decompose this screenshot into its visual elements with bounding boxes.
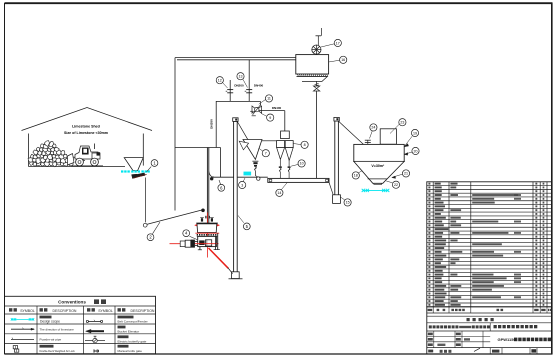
svg-text:7: 7 [265, 151, 267, 155]
title block frame [427, 307, 552, 354]
legend text manual knife gate [118, 345, 143, 353]
label 7 [259, 148, 270, 157]
legend column headers [9, 308, 155, 313]
svg-text:DN350: DN350 [209, 119, 213, 129]
label 10 [291, 160, 305, 167]
svg-text:SYMBOL: SYMBOL [98, 309, 113, 313]
vibrating feeder under hopper 1 [132, 173, 147, 179]
recirculation pipe DN350 [175, 101, 221, 177]
header pipe to butterfly valve [216, 100, 260, 102]
svg-text:23: 23 [400, 120, 404, 124]
bag filter 16 body [296, 55, 329, 82]
cyclone inlet box [281, 131, 290, 139]
svg-text:DN400: DN400 [272, 106, 282, 110]
cyclone pair 8 [262, 141, 293, 161]
svg-text:Double-Deck Weighted Air Lock: Double-Deck Weighted Air Lock [40, 350, 76, 353]
drop pipe from tank to screw conveyor [315, 83, 319, 178]
svg-text:DN400: DN400 [254, 84, 264, 88]
label 21 [392, 170, 410, 179]
svg-text:10: 10 [300, 162, 304, 166]
label 4 [183, 230, 197, 240]
label 1 [147, 160, 158, 172]
svg-text:Design scope: Design scope [40, 320, 60, 324]
mill 4 [170, 213, 220, 258]
svg-text:11: 11 [267, 97, 271, 101]
legend symbol manual knife gate [94, 349, 98, 352]
svg-text:Size of Limestone <30mm: Size of Limestone <30mm [64, 131, 108, 135]
label 17 [321, 39, 341, 47]
silo bag filter 23 [380, 129, 396, 144]
chute elevator15 to silo [339, 121, 364, 144]
label 5 [238, 216, 250, 230]
belt conveyor 2 [143, 209, 205, 228]
label 11 [259, 95, 273, 104]
parts header row [427, 307, 552, 313]
svg-text:Belt Conveyor/Feeder: Belt Conveyor/Feeder [118, 320, 148, 324]
mill discharge chute (red) [209, 248, 233, 274]
svg-text:Bucket Elevator: Bucket Elevator [118, 329, 140, 333]
legend text design scope [40, 316, 61, 324]
air duct horizontal [175, 58, 296, 60]
legend text butterfly gate [118, 335, 147, 343]
drawing title [498, 337, 552, 342]
parts list table [427, 182, 552, 307]
equipment material list title [427, 316, 552, 323]
label 8 [293, 141, 308, 148]
label 20 [404, 147, 419, 155]
separator discharge airlock [252, 161, 260, 180]
svg-text:19: 19 [413, 131, 417, 135]
screw feeder text (cyan) [244, 172, 252, 176]
label 16 [329, 56, 347, 63]
svg-text:20: 20 [414, 149, 418, 153]
label 2 [147, 222, 160, 241]
svg-text:The direction of limestone: The direction of limestone [40, 328, 75, 332]
label 13 [237, 73, 248, 88]
cyclone flap valves 10 [279, 160, 291, 179]
label 19 [404, 129, 418, 146]
label 14 [276, 183, 287, 197]
air duct downcomer [174, 58, 176, 211]
svg-text:12: 12 [218, 78, 222, 82]
branch pipe with valve 13 DN400 [245, 60, 253, 101]
mill motor [180, 240, 198, 248]
svg-text:Manual knife gate: Manual knife gate [118, 349, 143, 353]
svg-text:17: 17 [336, 41, 340, 45]
svg-text:9: 9 [269, 116, 271, 120]
feeder model text (cyan) [121, 170, 150, 172]
label 9 [261, 113, 274, 121]
legend symbol butterfly gate [85, 336, 105, 343]
svg-text:DESCRIPTION: DESCRIPTION [53, 309, 77, 313]
legend symbol belt conveyor [86, 320, 102, 323]
label 12 [216, 77, 227, 88]
bucket elevator 5 [229, 118, 243, 279]
mill feed pipe [207, 148, 208, 223]
wheel loader [68, 144, 104, 166]
label 24 [370, 124, 378, 139]
legend text belt conveyor [118, 316, 148, 324]
label 18 [352, 171, 362, 179]
elbow to elevator duct [209, 172, 268, 181]
svg-text:DESCRIPTION: DESCRIPTION [131, 309, 155, 313]
silo top valve 24 [365, 140, 371, 144]
svg-text:Electric butterfly gate: Electric butterfly gate [118, 339, 147, 343]
butterfly valve 9 11 [250, 101, 261, 115]
svg-text:13: 13 [239, 74, 243, 78]
branch pipe with valve 12 DN200 [226, 80, 234, 101]
legend symbol design scope [11, 318, 34, 320]
receiving hopper 1 [124, 158, 143, 171]
svg-text:3: 3 [241, 183, 243, 187]
discharge valve under tank 16 [313, 81, 319, 91]
svg-text:Limestone Shed: Limestone Shed [72, 125, 100, 129]
label 23 [390, 119, 406, 134]
svg-text:21: 21 [404, 172, 408, 176]
svg-text:18: 18 [354, 174, 358, 178]
label 3 [239, 178, 246, 189]
svg-text:Powder-air pipe: Powder-air pipe [40, 337, 62, 341]
legend title [58, 299, 106, 304]
svg-text:8: 8 [304, 143, 306, 147]
svg-text:15: 15 [346, 201, 350, 205]
bottom row of title block [428, 348, 537, 354]
legend symbol bucket elevator [86, 329, 105, 333]
chute elevator5 to separator [237, 122, 250, 143]
project name cell [427, 323, 552, 331]
svg-text:GPW1150: GPW1150 [498, 337, 517, 342]
shed caption [64, 125, 108, 136]
powder silo 18 [354, 144, 404, 184]
svg-text:SYMBOL: SYMBOL [20, 309, 35, 313]
legend symbol direction arrow [11, 328, 35, 331]
legend table frame [5, 296, 156, 354]
label 22 [386, 181, 399, 188]
bucket elevator 15 [329, 117, 340, 203]
legend symbol double-deck airlock [13, 346, 19, 353]
pipe from valve to cyclone inlet [259, 111, 285, 131]
svg-text:Conventions: Conventions [58, 299, 86, 304]
legend text bucket elevator [118, 326, 140, 334]
legend text double-deck airlock [40, 345, 76, 353]
parts list row texts [428, 183, 544, 306]
chute from feeder down [144, 178, 146, 223]
signature grid [427, 331, 552, 348]
legend symbol powder-air pipe [11, 338, 34, 340]
limestone shed [22, 108, 153, 167]
separator 7 [239, 140, 262, 160]
svg-text:24: 24 [371, 126, 375, 130]
limestone pile [28, 141, 73, 167]
svg-text:16: 16 [341, 58, 345, 62]
screw conveyor 14 [268, 178, 329, 182]
label 6 [218, 180, 225, 191]
svg-text:V=30m³: V=30m³ [371, 164, 385, 168]
exhaust fan 17 [312, 28, 322, 54]
design scope dashed line (cyan) [362, 189, 390, 192]
svg-text:DN200: DN200 [234, 84, 244, 88]
label 15 [340, 197, 351, 206]
svg-text:22: 22 [394, 183, 398, 187]
svg-text:14: 14 [277, 191, 281, 195]
